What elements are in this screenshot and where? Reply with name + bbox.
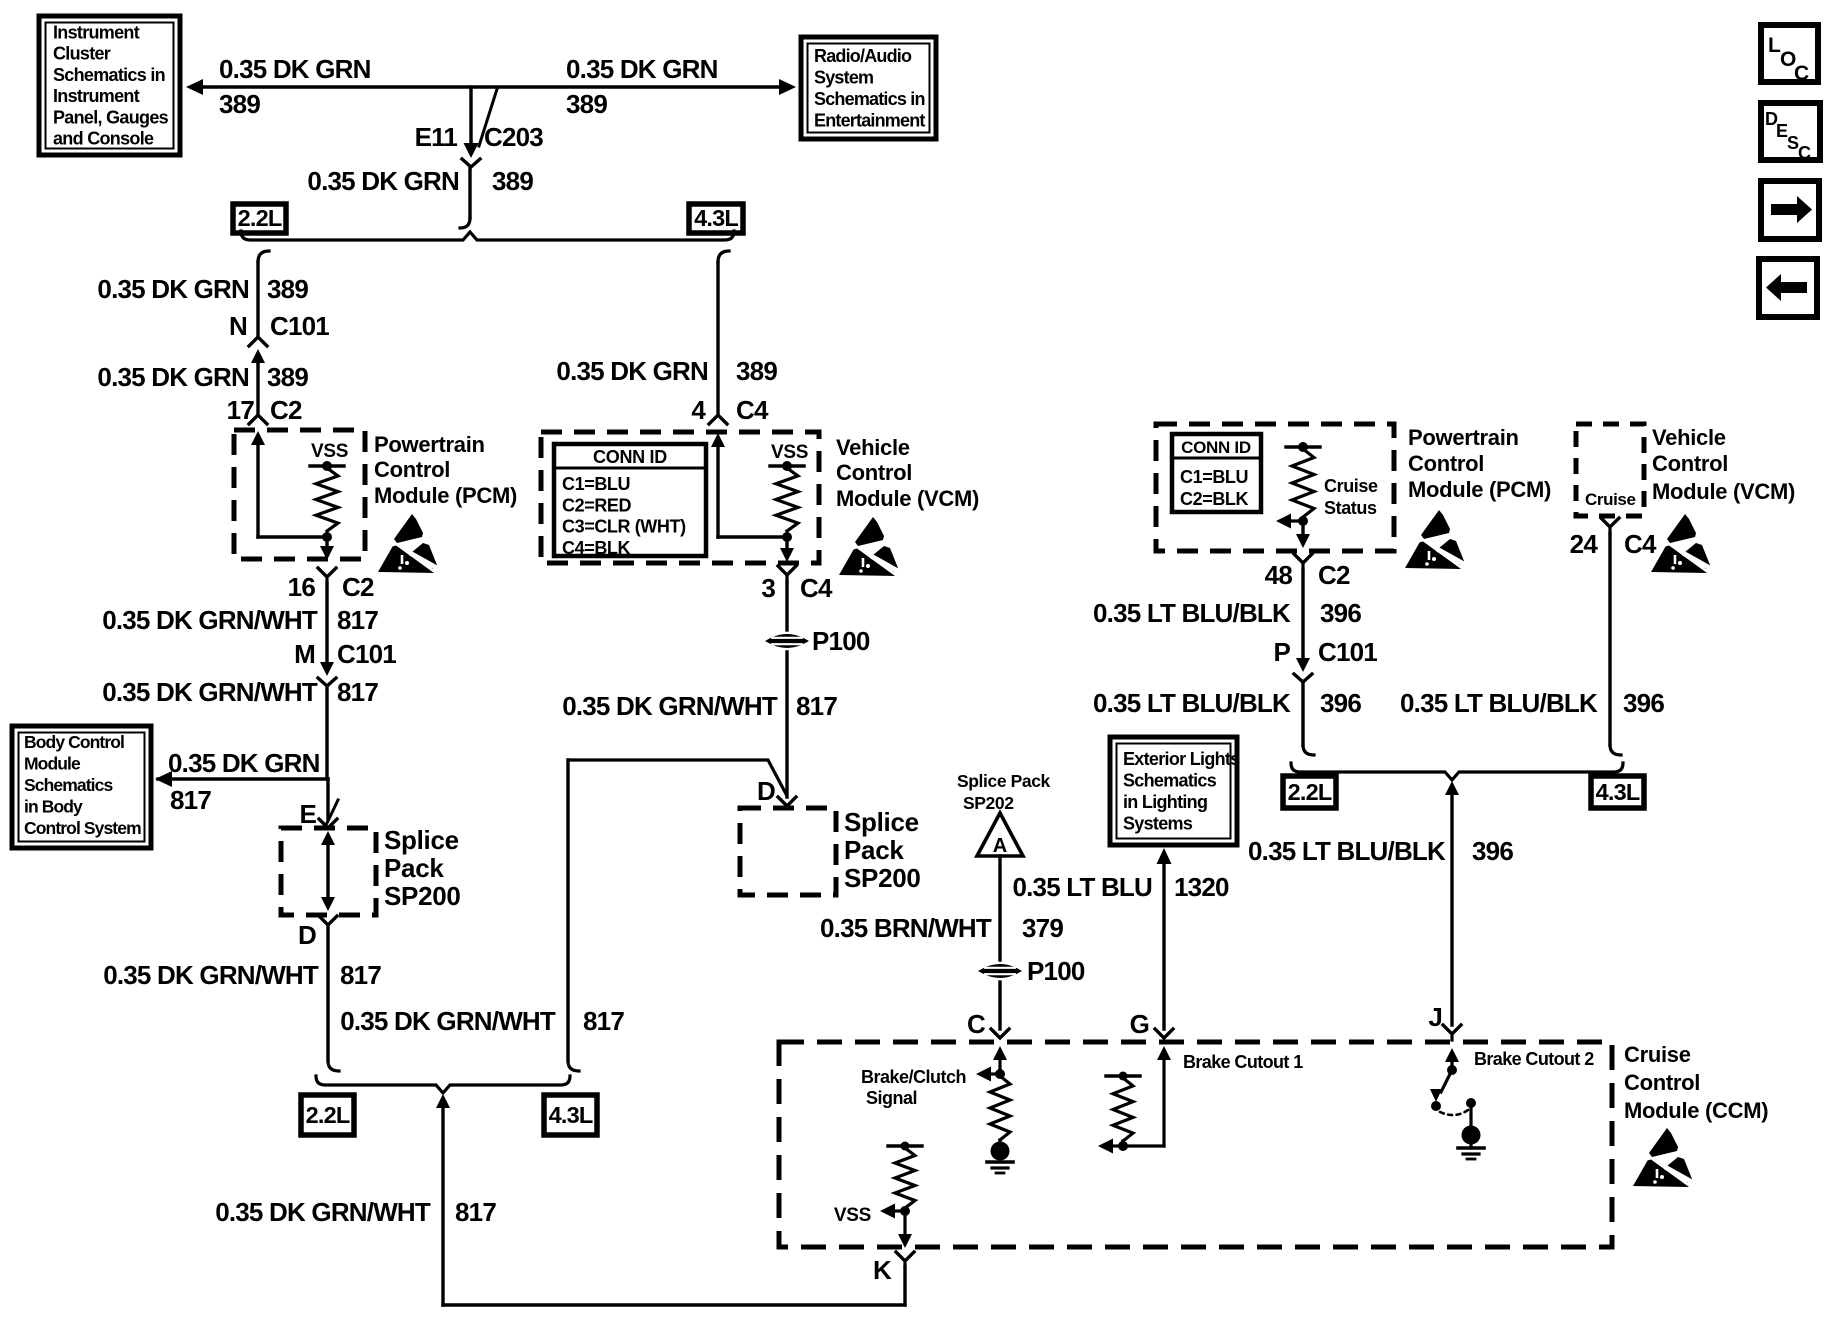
- arrow left from Cruise Status resistor: [1276, 514, 1303, 529]
- resistor Cruise Status: [1292, 449, 1314, 517]
- label 0.35 DK GRN/WHT 817 (mid): [562, 691, 837, 721]
- label 0.35 DK GRN 389 (right segment): [566, 54, 718, 119]
- resistor VSS (VCM 4.3L): [776, 468, 798, 531]
- svg-text:SP200: SP200: [384, 881, 461, 911]
- label P100: [812, 626, 870, 656]
- label Cruise Status: [1324, 476, 1378, 518]
- label VSS inside PCM: [311, 441, 348, 462]
- svg-text:0.35 DK GRN: 0.35 DK GRN: [566, 54, 718, 84]
- svg-text:CONN ID: CONN ID: [593, 447, 667, 467]
- wire end hook right (bottom bracket): [568, 1061, 579, 1071]
- wire pin 3 to P100: [785, 582, 788, 630]
- label 817 (BCM branch): [170, 785, 211, 815]
- splice pack SP200 (2.2L) dashed box: [281, 828, 376, 915]
- arrowhead up into right bracket: [1445, 781, 1459, 795]
- svg-text:C2: C2: [270, 395, 302, 425]
- connector C101 pin N arrow: [251, 349, 265, 366]
- label C (CCM pin): [967, 1009, 986, 1039]
- arrow left brake cutout 1: [1098, 1139, 1123, 1154]
- svg-text:Schematics: Schematics: [1123, 771, 1217, 791]
- engine variant label box 2.2L (bottom): [301, 1095, 354, 1135]
- connector C101 pin M chevron: [318, 678, 336, 686]
- svg-text:0.35 LT BLU/BLK: 0.35 LT BLU/BLK: [1093, 688, 1291, 718]
- svg-text:Signal: Signal: [866, 1088, 917, 1108]
- junction dot switch pivot (brake cutout 2): [1447, 1065, 1457, 1075]
- connector C203 pin E11 male arrow: [464, 141, 479, 158]
- ground symbol (brake/clutch): [987, 1151, 1013, 1173]
- wire brake cutout 1 to pin G: [1123, 1141, 1164, 1146]
- label P100 (brake branch): [1027, 956, 1085, 986]
- svg-text:0.35 DK GRN: 0.35 DK GRN: [556, 356, 708, 386]
- CCM pin C entry arrow: [993, 1046, 1007, 1074]
- svg-text:2.2L: 2.2L: [306, 1102, 350, 1128]
- svg-text:SP200: SP200: [844, 863, 921, 893]
- wire 0.35 DK GRN 389 C101 to PCM pin 17: [256, 363, 259, 415]
- engine variant label box 2.2L (top): [233, 204, 286, 233]
- svg-text:4.3L: 4.3L: [694, 205, 738, 231]
- svg-text:Systems: Systems: [1123, 814, 1193, 834]
- brake cutout 1 resistor top bar: [1106, 1072, 1140, 1081]
- label 0.35 DK GRN/WHT 817 (left of SP200 right): [340, 1006, 624, 1036]
- wire 0.35 DK GRN/WHT 817 P100 to splice pack D: [785, 652, 788, 797]
- svg-text:389: 389: [219, 89, 260, 119]
- label 0.35 DK GRN 389 below C203: [307, 166, 533, 196]
- engine split bracket (right): [1291, 763, 1623, 780]
- label VSS inside VCM: [771, 442, 808, 463]
- label C4 (pin 24): [1624, 529, 1657, 559]
- module label Vehicle Control Module (VCM): [836, 435, 979, 511]
- svg-text:817: 817: [796, 691, 837, 721]
- VSS resistor top bar (VCM): [770, 464, 804, 467]
- svg-text:C2=BLK: C2=BLK: [1180, 489, 1249, 509]
- svg-text:C1=BLU: C1=BLU: [1180, 467, 1248, 487]
- splice pack pin E slash tick: [327, 800, 338, 823]
- label 0.35 DK GRN/WHT 817 (bottom): [215, 1197, 496, 1227]
- svg-text:Schematics in: Schematics in: [53, 65, 165, 85]
- svg-text:24: 24: [1570, 529, 1599, 559]
- label 0.35 LT BLU 1320: [1012, 872, 1229, 902]
- wire 0.35 BRN/WHT 379 SP202 to P100: [998, 856, 1001, 960]
- wire 0.35 LT BLU/BLK 396 pin 48 to C101: [1301, 570, 1304, 658]
- label Cruise inside right VCM: [1585, 490, 1636, 509]
- junction dot brake cutout 1: [1118, 1141, 1128, 1151]
- wire inside PCM from pin 17 to VSS resistor: [258, 445, 327, 537]
- wire drop from bus to connector C203: [469, 87, 472, 141]
- ground ball (brake cutout 2): [1462, 1103, 1481, 1145]
- module label Powertrain Control Module (PCM) right: [1408, 425, 1551, 502]
- svg-text:Cruise: Cruise: [1324, 476, 1378, 496]
- svg-text:J: J: [1428, 1002, 1442, 1032]
- svg-text:C: C: [1794, 62, 1809, 85]
- junction dot VSS resistor bottom (VCM): [782, 532, 792, 542]
- resistor brake cutout 1: [1113, 1078, 1133, 1141]
- wire 0.35 DK GRN/WHT 817 down-left branch to bottom bracket: [566, 760, 569, 1060]
- svg-text:0.35 DK GRN/WHT: 0.35 DK GRN/WHT: [102, 677, 318, 707]
- connector C101 pin P chevron: [1294, 674, 1312, 682]
- connector C203 slash tick: [479, 89, 497, 146]
- svg-text:C2: C2: [1318, 560, 1350, 590]
- Cruise Status resistor top bar: [1286, 445, 1320, 448]
- label 4: [691, 395, 706, 425]
- connector C2 pin 16 chevron below PCM: [318, 568, 336, 584]
- wire end hook above engine split bracket: [460, 218, 470, 228]
- svg-text:Schematics: Schematics: [24, 775, 113, 795]
- svg-text:C3=CLR (WHT): C3=CLR (WHT): [562, 517, 686, 537]
- svg-text:0.35 DK GRN: 0.35 DK GRN: [168, 748, 320, 778]
- wire hook below bracket (2.2L branch): [258, 251, 269, 262]
- module box Cruise Control Module CCM dashed: [779, 1042, 1612, 1247]
- wire 0.35 LT BLU/BLK 396 bracket to CCM pin J: [1450, 795, 1453, 1025]
- wire 0.35 DK GRN 389 horizontal to Instrument Cluster and Radio: [192, 85, 790, 88]
- svg-text:Status: Status: [1324, 498, 1377, 518]
- legend box forward arrow: [1761, 181, 1819, 239]
- svg-text:System: System: [814, 68, 873, 88]
- VSS resistor top bar (PCM): [310, 464, 344, 467]
- arrowhead up into bottom bracket: [436, 1094, 450, 1108]
- switch arm brake cutout 2: [1430, 1070, 1452, 1102]
- svg-text:Control: Control: [836, 460, 912, 485]
- svg-text:Cluster: Cluster: [53, 44, 111, 64]
- label 0.35 LT BLU/BLK 396 (to pin J): [1248, 836, 1513, 866]
- label C4 (pin 4): [736, 395, 769, 425]
- PCM right pin 48 exit wire and arrow: [1296, 521, 1310, 548]
- svg-text:C2=RED: C2=RED: [562, 495, 632, 515]
- label N: [229, 311, 247, 341]
- svg-text:C4: C4: [736, 395, 769, 425]
- label 48: [1265, 560, 1293, 590]
- svg-text:0.35 DK GRN/WHT: 0.35 DK GRN/WHT: [102, 605, 318, 635]
- svg-text:0.35 DK GRN/WHT: 0.35 DK GRN/WHT: [340, 1006, 556, 1036]
- label C2 (pin 17): [270, 395, 302, 425]
- svg-text:D: D: [757, 776, 775, 806]
- svg-text:389: 389: [267, 362, 308, 392]
- svg-text:Radio/Audio: Radio/Audio: [814, 46, 912, 66]
- ESD sensitive device symbol (right PCM): [1405, 510, 1471, 569]
- svg-text:2.2L: 2.2L: [238, 205, 282, 231]
- svg-text:Control System: Control System: [24, 818, 141, 838]
- arrowhead up into Exterior Lights box: [1157, 848, 1172, 864]
- label 0.35 DK GRN 389 (above VCM): [556, 356, 777, 386]
- label C2 (pin 16): [342, 572, 374, 602]
- label 0.35 DK GRN 389 (left segment): [219, 54, 371, 119]
- wire branch from 4.3L bracket joining splice pack D: [568, 760, 786, 794]
- svg-text:389: 389: [492, 166, 533, 196]
- wire 0.35 LT BLU/BLK 396 pin 24 to right bracket: [1608, 534, 1611, 745]
- svg-text:E11: E11: [415, 122, 458, 152]
- connector C2 pin 17 chevron: [249, 415, 267, 424]
- svg-text:0.35 DK GRN/WHT: 0.35 DK GRN/WHT: [562, 691, 778, 721]
- svg-text:817: 817: [337, 677, 378, 707]
- ESD sensitive device symbol (right VCM): [1651, 514, 1717, 573]
- svg-text:0.35 LT BLU/BLK: 0.35 LT BLU/BLK: [1400, 688, 1598, 718]
- CCM pin J entry arrow: [1445, 1048, 1459, 1070]
- svg-text:Module (VCM): Module (VCM): [836, 486, 979, 511]
- svg-text:0.35 DK GRN: 0.35 DK GRN: [97, 274, 249, 304]
- svg-text:0.35 DK GRN: 0.35 DK GRN: [219, 54, 371, 84]
- svg-text:M: M: [294, 639, 315, 669]
- svg-text:0.35 LT BLU/BLK: 0.35 LT BLU/BLK: [1093, 598, 1291, 628]
- svg-text:0.35 LT BLU: 0.35 LT BLU: [1012, 872, 1152, 902]
- wire 0.35 LT BLU 1320 CCM pin G to Exterior Lights: [1162, 862, 1165, 1029]
- svg-text:Exterior Lights: Exterior Lights: [1123, 749, 1240, 769]
- svg-text:379: 379: [1022, 913, 1063, 943]
- PCM pin 17 entry arrow inside module: [251, 431, 265, 445]
- wire end hook (right bracket left side): [1303, 745, 1314, 755]
- label E: [299, 799, 316, 829]
- resistor VSS (PCM 2.2L): [316, 468, 338, 531]
- module label Vehicle Control Module (VCM) right: [1652, 425, 1795, 504]
- svg-text:17: 17: [227, 395, 255, 425]
- splice pack SP200 pin D chevron (right): [778, 797, 796, 806]
- VCM pin 4 entry arrow: [711, 433, 725, 447]
- svg-text:0.35 BRN/WHT: 0.35 BRN/WHT: [820, 913, 992, 943]
- connector C101 pin M arrow down: [320, 662, 334, 676]
- svg-text:Control: Control: [1408, 451, 1484, 476]
- label G (CCM pin): [1130, 1009, 1149, 1039]
- legend box LOC: [1761, 25, 1818, 85]
- wire end hook left (bottom bracket): [328, 1061, 339, 1071]
- junction dot Cruise Status resistor top: [1298, 442, 1308, 452]
- connector C101 pin P arrow down: [1296, 658, 1310, 672]
- engine variant label box 2.2L (right): [1283, 776, 1336, 808]
- svg-text:CONN ID: CONN ID: [1181, 438, 1251, 457]
- svg-text:4: 4: [691, 395, 706, 425]
- ESD sensitive device symbol (VCM 4.3L): [839, 517, 905, 576]
- legend box back arrow: [1759, 259, 1817, 317]
- wire end hook (right bracket right side): [1610, 745, 1621, 755]
- module label Cruise Control Module (CCM): [1624, 1042, 1768, 1123]
- svg-text:396: 396: [1320, 688, 1361, 718]
- label C101 (pin N): [270, 311, 329, 341]
- svg-text:in Lighting: in Lighting: [1123, 792, 1207, 812]
- label Splice Pack SP202: [957, 771, 1051, 813]
- label K: [873, 1255, 892, 1285]
- svg-text:Module: Module: [24, 754, 81, 774]
- svg-text:4.3L: 4.3L: [549, 1102, 593, 1128]
- connector C203 female chevron: [462, 159, 480, 167]
- label 0.35 BRN/WHT 379: [820, 913, 1063, 943]
- label 0.35 DK GRN/WHT 817 (below pin 16): [102, 605, 378, 635]
- connector C4 pin 4 chevron: [709, 415, 727, 424]
- connector chevron below CCM pin K: [896, 1252, 914, 1267]
- svg-text:VSS: VSS: [771, 442, 808, 463]
- wire 0.35 DK GRN/WHT 817 C101 to BCM junction: [325, 686, 328, 779]
- svg-text:SP202: SP202: [963, 793, 1014, 813]
- svg-text:C203: C203: [484, 122, 543, 152]
- switch contact dot (brake cutout 2): [1431, 1101, 1441, 1111]
- svg-text:396: 396: [1320, 598, 1361, 628]
- wire junction to splice pack pin E: [326, 779, 329, 819]
- label 0.35 LT BLU/BLK 396 (above C101 P): [1093, 598, 1361, 628]
- label C101 (pin P): [1318, 637, 1377, 667]
- destination box: Body Control Module Schematics in Body Control System: [12, 726, 151, 848]
- svg-text:389: 389: [267, 274, 308, 304]
- svg-text:Body Control: Body Control: [24, 732, 124, 752]
- label Splice Pack SP200 (left): [384, 825, 461, 911]
- ESD sensitive device symbol (CCM): [1633, 1128, 1699, 1187]
- SP200 internal wire: [326, 845, 329, 897]
- svg-text:Schematics in: Schematics in: [814, 89, 925, 109]
- svg-text:in Body: in Body: [24, 797, 83, 817]
- svg-text:Powertrain: Powertrain: [1408, 425, 1519, 450]
- svg-text:48: 48: [1265, 560, 1293, 590]
- label 24: [1570, 529, 1599, 559]
- svg-text:K: K: [873, 1255, 892, 1285]
- pass-through grommet P100 (brake branch): [981, 966, 1019, 977]
- svg-text:C1=BLU: C1=BLU: [562, 474, 630, 494]
- svg-text:Splice: Splice: [384, 825, 459, 855]
- label P: [1273, 637, 1290, 667]
- svg-text:Module (VCM): Module (VCM): [1652, 479, 1795, 504]
- svg-text:Pack: Pack: [844, 835, 904, 865]
- label J (CCM pin): [1428, 1002, 1442, 1032]
- wire 0.35 DK GRN/WHT 817 SP200 to engine bracket: [326, 925, 329, 1060]
- connector C101 pin N chevron: [249, 337, 267, 346]
- pass-through grommet P100 (engine harness): [768, 636, 806, 647]
- svg-text:A: A: [993, 835, 1007, 857]
- svg-text:and Console: and Console: [53, 129, 154, 149]
- svg-text:C101: C101: [270, 311, 329, 341]
- svg-text:C101: C101: [1318, 637, 1377, 667]
- arrow left Brake/Clutch Signal: [976, 1067, 1000, 1082]
- svg-text:C: C: [967, 1009, 986, 1039]
- svg-text:389: 389: [736, 356, 777, 386]
- label D (SP200 left): [298, 920, 316, 950]
- arrowhead to Body Control Module: [155, 771, 172, 787]
- svg-text:N: N: [229, 311, 247, 341]
- svg-text:Instrument: Instrument: [53, 86, 140, 106]
- label 17: [227, 395, 255, 425]
- connector chevron CCM pin J: [1443, 1025, 1461, 1040]
- svg-text:E: E: [299, 799, 316, 829]
- label C203: [484, 122, 543, 152]
- svg-text:817: 817: [583, 1006, 624, 1036]
- svg-text:D: D: [298, 920, 316, 950]
- CCM pin K exit wire and arrow: [898, 1211, 912, 1248]
- label 0.35 DK GRN 389 (above C101): [97, 274, 308, 304]
- svg-text:VSS: VSS: [834, 1205, 871, 1226]
- label D (SP200 right): [757, 776, 775, 806]
- connector C2 pin 48 chevron below right PCM: [1294, 554, 1312, 570]
- VCM pin 3 exit wire and arrow: [780, 537, 794, 562]
- junction dot brake/clutch signal: [995, 1069, 1005, 1079]
- label Brake Cutout 1: [1183, 1052, 1303, 1072]
- module box Vehicle Control Module VCM (4.3L) dashed: [541, 432, 819, 563]
- arrowhead right to Radio/Audio: [779, 79, 796, 95]
- svg-text:Vehicle: Vehicle: [836, 435, 910, 460]
- svg-text:Instrument: Instrument: [53, 23, 140, 43]
- switch travel dashed arc (brake cutout 2): [1440, 1110, 1468, 1115]
- svg-text:Powertrain: Powertrain: [374, 432, 485, 457]
- connector chevron CCM pin G: [1155, 1029, 1173, 1038]
- label 0.35 DK GRN/WHT 817 (below SP200): [103, 960, 381, 990]
- engine variant label box 4.3L (bottom): [544, 1095, 597, 1135]
- legend box DESC: [1761, 103, 1820, 163]
- svg-text:Control: Control: [374, 457, 450, 482]
- SP200 internal arrow up: [321, 831, 335, 845]
- svg-text:P: P: [1273, 637, 1290, 667]
- svg-text:Splice: Splice: [844, 807, 919, 837]
- svg-text:Brake/Clutch: Brake/Clutch: [861, 1067, 966, 1087]
- splice pack SP202 triangle symbol: [977, 813, 1023, 857]
- wire hook below bracket (4.3L branch): [718, 251, 729, 262]
- label 0.35 LT BLU/BLK 396 (right, above bracket): [1400, 688, 1664, 718]
- label Brake/Clutch Signal: [861, 1067, 966, 1108]
- svg-text:396: 396: [1472, 836, 1513, 866]
- svg-text:Control: Control: [1652, 451, 1728, 476]
- engine variant label box 4.3L (top): [689, 204, 743, 233]
- svg-text:C4: C4: [1624, 529, 1657, 559]
- connector C4 pin 24 chevron below right VCM: [1601, 518, 1619, 534]
- svg-text:817: 817: [337, 605, 378, 635]
- label 0.35 DK GRN (BCM branch): [168, 748, 320, 778]
- label E11: [415, 122, 458, 152]
- junction dot VSS resistor top (VCM): [782, 461, 792, 471]
- svg-text:Brake Cutout 1: Brake Cutout 1: [1183, 1052, 1303, 1072]
- label M: [294, 639, 315, 669]
- ESD sensitive device symbol (PCM 2.2L): [378, 514, 444, 573]
- splice pack SP200 pin E chevron: [319, 819, 337, 828]
- svg-text:Cruise: Cruise: [1585, 490, 1636, 509]
- svg-text:G: G: [1130, 1009, 1149, 1039]
- svg-text:C4: C4: [800, 573, 833, 603]
- destination box: Exterior Lights Schematics in Lighting Systems: [1110, 737, 1240, 845]
- destination box: Radio/Audio System Schematics in Entertainment: [801, 37, 936, 139]
- svg-text:C2: C2: [342, 572, 374, 602]
- wire 0.35 LT BLU/BLK 396 C101 to right bracket: [1301, 682, 1304, 745]
- label VSS (CCM): [834, 1205, 871, 1226]
- svg-text:Cruise: Cruise: [1624, 1042, 1691, 1067]
- wire 0.35 DK GRN 817 branch to Body Control Module: [158, 777, 328, 780]
- resistor VSS (CCM): [895, 1148, 915, 1208]
- label Brake Cutout 2: [1474, 1049, 1594, 1069]
- svg-text:Brake Cutout 2: Brake Cutout 2: [1474, 1049, 1594, 1069]
- svg-text:Entertainment: Entertainment: [814, 111, 925, 131]
- svg-text:16: 16: [288, 572, 316, 602]
- SP200 internal arrow down: [321, 897, 335, 911]
- svg-text:Module (PCM): Module (PCM): [1408, 477, 1551, 502]
- junction dot VSS (CCM): [900, 1206, 910, 1216]
- label 16: [288, 572, 316, 602]
- label 3: [761, 573, 775, 603]
- svg-text:0.35 DK GRN: 0.35 DK GRN: [307, 166, 459, 196]
- destination box: Instrument Cluster Schematics in Instrument Panel, Gauges and Console: [39, 16, 180, 155]
- arrow left VSS (CCM): [880, 1204, 905, 1219]
- label 0.35 LT BLU/BLK 396 (left, above bracket): [1093, 688, 1361, 718]
- splice pack SP200 (4.3L) dashed box: [740, 808, 836, 895]
- label 0.35 DK GRN 389 (above pin 17): [97, 362, 308, 392]
- connector chevron CCM pin C: [991, 1029, 1009, 1038]
- svg-text:817: 817: [170, 785, 211, 815]
- svg-text:0.35 DK GRN: 0.35 DK GRN: [97, 362, 249, 392]
- svg-text:Module (PCM): Module (PCM): [374, 483, 517, 508]
- svg-text:Pack: Pack: [384, 853, 444, 883]
- svg-text:0.35 DK GRN/WHT: 0.35 DK GRN/WHT: [103, 960, 319, 990]
- VSS resistor top bar (CCM): [888, 1142, 922, 1151]
- svg-text:396: 396: [1623, 688, 1664, 718]
- junction dot VSS resistor bottom (PCM): [322, 532, 332, 542]
- svg-text:P100: P100: [1027, 956, 1085, 986]
- svg-text:0.35 LT BLU/BLK: 0.35 LT BLU/BLK: [1248, 836, 1446, 866]
- resistor brake/clutch pull-down: [990, 1076, 1010, 1140]
- switch throw dot (brake cutout 2): [1466, 1098, 1476, 1108]
- svg-text:P100: P100: [812, 626, 870, 656]
- connector C4 pin 3 chevron below VCM: [778, 566, 796, 582]
- ground symbol (brake cutout 2): [1458, 1135, 1484, 1159]
- svg-text:Splice Pack: Splice Pack: [957, 771, 1051, 791]
- svg-text:VSS: VSS: [311, 441, 348, 462]
- svg-text:Vehicle: Vehicle: [1652, 425, 1726, 450]
